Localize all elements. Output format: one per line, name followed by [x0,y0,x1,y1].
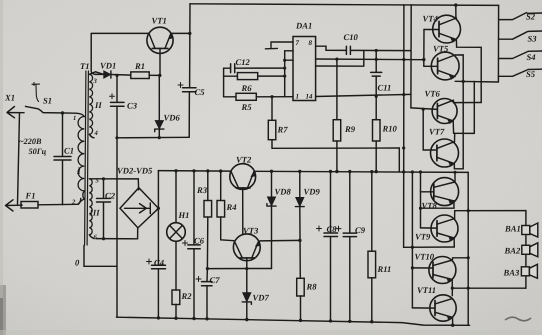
wire bridge bottom corner [137,228,139,239]
transistor VT8 [421,178,459,206]
transistor VT7 [431,139,459,167]
svg-text:~220В: ~220В [19,137,42,146]
wire C3 column down to bottom rail [116,76,118,318]
VT6 collector wire [453,100,481,102]
svg-text:7: 7 [296,39,300,47]
connector X1 plug top prong [7,107,24,205]
bottom common rail [117,317,470,325]
svg-text:R7: R7 [277,125,289,135]
svg-text:II: II [94,100,102,110]
svg-text:C8: C8 [327,224,338,234]
VT4 emitter wire [456,40,481,103]
svg-text:0: 0 [75,258,80,268]
resistor R2 [172,290,180,318]
svg-text:VT4: VT4 [423,14,439,24]
capacitor C2 [97,177,111,240]
svg-text:1: 1 [296,93,300,101]
resistor R6 [224,73,285,80]
wire VT1 right lead [171,32,190,34]
capacitor C3 [110,94,125,107]
resistor R5 [224,93,293,100]
svg-text:C6: C6 [194,236,205,246]
capacitor C7 [196,269,212,319]
svg-text:BA1: BA1 [504,224,521,234]
svg-text:VT3: VT3 [243,226,259,236]
svg-text:VD6: VD6 [164,113,181,123]
transistor VT10 [412,257,456,284]
diode VD9 [295,170,304,279]
scan smudge bottom left corner [0,285,6,335]
svg-text:3: 3 [93,78,98,85]
svg-text:X1: X1 [4,93,15,103]
capacitor C8 [317,170,338,319]
base chain row y=247 [404,246,455,248]
svg-text:C3: C3 [127,101,138,111]
T1 winding III [89,179,96,239]
VT8 collector wire [454,172,456,182]
scan squiggle bottom right [505,317,531,321]
wire winding III pin5 to bridge [96,178,138,180]
wire F1 to winding I pin 2 [78,199,81,205]
svg-text:R10: R10 [382,124,398,134]
svg-text:C1: C1 [64,146,74,156]
svg-text:VD9: VD9 [304,187,321,197]
node 0 wire [84,246,117,267]
svg-text:T1: T1 [80,61,90,71]
wire V2 to VT6 base [411,108,438,110]
svg-text:S1: S1 [43,96,52,106]
wire emitter column [188,4,191,138]
svg-text:VD1: VD1 [100,61,116,71]
wire VT1 left lead [91,33,149,74]
switch S5 [498,69,542,76]
top rail junction dots on positive rail [174,169,177,172]
capacitor C12 [224,64,285,73]
fuse F1 [21,202,78,209]
svg-text:C4: C4 [154,258,165,268]
scan shade left edge [0,0,3,335]
svg-text:R11: R11 [377,264,392,274]
speaker BA2 [522,243,538,257]
svg-text:VT5: VT5 [433,44,449,54]
svg-text:DA1: DA1 [295,21,312,31]
T1 winding I [76,113,84,204]
svg-text:VT1: VT1 [152,16,167,26]
svg-text:C5: C5 [195,87,206,97]
wire winding III pin6 to bridge [96,238,138,240]
speaker BA3 [521,264,537,278]
svg-text:R8: R8 [306,282,318,292]
speakers feed vertical [525,211,527,289]
node VT1 emitter column [188,32,191,35]
zener diode VD8 [267,170,276,269]
zener diode VD6 [155,75,164,137]
wire common output y=137.5 [117,136,189,139]
capacitor C6 [183,171,201,319]
svg-text:R5: R5 [241,102,253,112]
node C3 tap [115,74,118,77]
svg-text:1: 1 [73,115,76,122]
switch S4 [499,51,542,59]
svg-text:VT7: VT7 [429,127,445,137]
wire bridge top corner to winding III [137,179,139,190]
node R1/VD6/VT1 base [158,74,161,77]
svg-text:VD8: VD8 [275,187,292,197]
svg-text:C12: C12 [236,57,251,67]
switch S2 [499,13,542,20]
VT5 emitter / switch bus bottom wire [455,81,498,133]
wire VT6/VT7 base chain [423,109,437,150]
resistor R4 [217,171,234,241]
svg-text:BA2: BA2 [504,246,521,256]
touch sensor plate E1 [265,42,293,49]
wire junction C1 top [61,111,64,114]
svg-text:R9: R9 [344,124,356,134]
VT5 collector wire [455,55,463,169]
VT10 emitter / speakers bottom wire [452,279,526,295]
svg-text:14: 14 [306,93,314,101]
svg-text:2: 2 [71,199,76,206]
resistor R3 [204,171,212,269]
VT8 emitter wire [421,201,455,208]
transistor VT4 [424,15,461,43]
svg-text:VD2-VD5: VD2-VD5 [117,166,153,176]
resistor R8 [297,278,305,319]
svg-text:R6: R6 [241,83,253,93]
connector X1 plug bottom prong [6,200,23,211]
svg-text:8: 8 [309,39,313,47]
svg-text:VT11: VT11 [417,285,436,295]
capacitor C10 [326,46,411,54]
VT4 collector to top rail [455,5,457,18]
VT10 collector wire [452,258,468,260]
VT4/VT5 base chain [423,30,425,67]
VT7 emitter wire [454,164,463,169]
speaker BA1 [522,223,538,237]
left bus of C12/R6/R5 [223,68,225,97]
svg-text:VT2: VT2 [236,155,252,165]
svg-text:50Гц: 50Гц [29,147,47,156]
capacitor C9 [336,170,357,319]
svg-text:VD7: VD7 [253,293,270,303]
transistor VT6 [432,99,457,124]
transistor VT2 [230,164,256,234]
switch S1 [26,83,77,114]
switch bus vertical [497,5,499,82]
wire VT3 collector to VD9 column [260,239,300,242]
transistor VT9 [421,215,459,242]
svg-text:C11: C11 [378,83,392,93]
capacitor C4 [147,259,166,318]
svg-text:VT6: VT6 [425,89,441,99]
transistor VT3 [233,234,260,293]
capacitor C1 [54,113,71,205]
lower section left frame / base bus [411,172,413,308]
svg-text:VT10: VT10 [415,252,435,262]
svg-text:R1: R1 [134,61,145,71]
svg-text:R2: R2 [181,291,193,301]
svg-text:VT9: VT9 [415,232,431,242]
svg-text:BA3: BA3 [503,268,520,278]
VT7 collector wire [454,133,456,141]
resistor R10 [373,96,381,173]
transformer T1 core [85,71,89,245]
svg-text:S3: S3 [528,34,538,44]
zener diode VD7 [242,293,251,321]
switch S3 [499,31,542,39]
VT8 feed vertical [420,172,422,228]
wire C7/VD8 row [207,268,271,270]
VT9 collector wire to speakers top [455,211,526,219]
capacitor C5 [178,83,196,92]
resistor R1 [131,72,160,79]
svg-text:III: III [89,208,101,218]
DA1 pin8 wire [316,46,326,50]
VT11 emitter to bottom rail [452,317,454,325]
transistor VT5 [424,52,459,80]
long vertical V2 [410,5,412,108]
svg-text:C9: C9 [355,225,366,235]
svg-text:R4: R4 [226,202,238,212]
bridge rectifier VD2-VD5 [120,188,159,228]
T1 winding II [89,72,103,138]
lamp H1 [167,171,186,290]
svg-text:C2: C2 [105,191,116,201]
VT6 emitter wire [453,121,474,133]
long vertical V1 [403,5,405,247]
DA1 row 2 wire [316,58,424,61]
resistor R7 [268,95,399,148]
svg-text:C7: C7 [210,275,221,285]
diode VD1 [96,71,131,78]
transistor VT1 [147,27,173,75]
svg-text:S4: S4 [527,52,537,62]
resistor R11 [368,170,376,322]
DA1 row 3 wire [316,51,364,67]
scan shade bottom edge [0,330,542,335]
svg-text:S2: S2 [526,12,536,22]
svg-text:S5: S5 [526,69,536,79]
VT9 emitter wire [453,238,455,247]
svg-text:F1: F1 [25,191,36,201]
svg-text:4: 4 [94,130,99,137]
svg-text:R3: R3 [196,185,208,195]
transistor VT11 [412,295,456,321]
svg-text:C10: C10 [344,32,359,42]
DA1 pin14 row wire [316,94,411,96]
rail junction dots [157,316,160,319]
svg-text:VT8: VT8 [422,201,438,211]
IC DA1 [293,37,316,101]
DA1 left pin bus [283,51,293,97]
top supply rail [190,4,499,6]
wire R7 row corner down to rail [398,148,400,172]
resistor R9 [333,59,341,173]
main positive rail [158,171,468,173]
wire bridge + riser / C4 column [157,171,159,265]
capacitor C11 [371,49,382,96]
svg-text:H1: H1 [178,210,190,220]
lower section right frame [467,172,469,325]
